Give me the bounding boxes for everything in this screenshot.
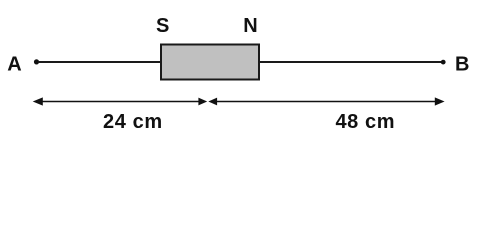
wire A to magnet [38,61,161,63]
svg-text:A: A [7,53,21,75]
svg-text:B: B [455,53,469,75]
svg-text:48 cm: 48 cm [335,111,395,133]
dimension arrow 48 cm left head [208,98,217,106]
bar magnet body [161,45,259,80]
svg-text:24 cm: 24 cm [103,111,163,133]
dimension arrow 24 cm shaft [41,101,200,103]
dimension arrow 24 cm left head [33,97,43,105]
svg-text:S: S [156,15,169,37]
dimension arrow 24 cm right head [198,98,207,106]
node A dot [34,59,39,64]
dimension arrow 48 cm right head [435,97,445,105]
node B dot [441,60,446,65]
svg-text:N: N [243,15,257,37]
wire magnet to B [259,61,442,63]
dimension arrow 48 cm shaft [216,101,436,103]
